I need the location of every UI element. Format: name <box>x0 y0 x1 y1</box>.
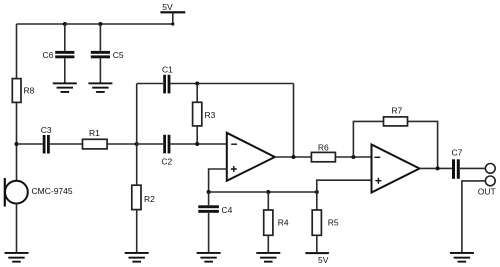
resistor R7 <box>384 117 408 126</box>
wire: R5 leads <box>316 192 318 252</box>
wire: C7 to output jack tip <box>460 167 486 169</box>
node: bias/C4 junction <box>207 190 211 194</box>
capacitor C4 <box>198 205 219 212</box>
ground: under R2 <box>125 252 149 263</box>
svg-text:R5: R5 <box>328 218 339 228</box>
node: C2/R3 junction <box>195 142 199 146</box>
node: bias/R4 junction <box>266 190 270 194</box>
svg-text:C5: C5 <box>113 50 124 60</box>
wire: bias row <box>209 191 317 193</box>
svg-text:R8: R8 <box>24 85 35 95</box>
ground: under C5 <box>88 82 112 93</box>
wire: top supply rail <box>17 23 173 25</box>
node: mic / C3 junction <box>15 142 19 146</box>
node: output/feedback junction <box>292 155 296 159</box>
marker: U1 minus <box>231 143 237 145</box>
wire: U1 output to R6 <box>275 156 312 158</box>
resistor R2 <box>132 185 141 209</box>
svg-text:R1: R1 <box>89 128 100 138</box>
svg-text:R7: R7 <box>391 106 402 116</box>
resistor R6 <box>311 152 335 161</box>
capacitor C5 <box>91 51 110 58</box>
svg-text:R4: R4 <box>278 218 289 228</box>
svg-text:C2: C2 <box>161 157 172 167</box>
svg-text:C1: C1 <box>162 65 173 75</box>
wire: U1 plus input down to bias row <box>209 169 227 192</box>
wire: feedback vertical down to output node <box>293 84 295 158</box>
wire: C1 row left segment <box>137 83 163 85</box>
ground: under C6 <box>53 82 77 93</box>
svg-text:5V: 5V <box>162 2 173 12</box>
svg-text:R2: R2 <box>144 194 155 204</box>
ground: under microphone <box>5 252 29 263</box>
resistor R3 <box>193 102 202 126</box>
ground: output sleeve <box>450 252 474 263</box>
5V supply bottom <box>305 252 329 254</box>
marker: U2 plus <box>375 178 381 184</box>
wire: C6 leads <box>64 24 66 83</box>
svg-text:R3: R3 <box>205 110 216 120</box>
svg-text:C3: C3 <box>41 125 52 135</box>
node: C5 top junction <box>98 22 102 26</box>
wire: R1 to node <box>107 143 137 145</box>
op-amp U2 <box>372 145 420 193</box>
wire: mic to ground <box>16 204 18 253</box>
resistor R8 <box>12 79 21 103</box>
node: C1/R3 junction <box>195 82 199 86</box>
wire: C2 to op-amp U1 inverting input <box>170 143 226 145</box>
wire: R6 to U2 inverting input <box>335 156 371 158</box>
wire: node to C2 <box>137 143 163 145</box>
wire: R7 branch up and across <box>353 121 437 168</box>
terminal: OUT sleeve <box>485 176 495 186</box>
resistor R5 <box>312 210 321 235</box>
node: bias/R5 junction <box>315 190 319 194</box>
terminal: OUT tip <box>485 164 495 174</box>
wire: U2 output to C7 <box>420 167 452 169</box>
microphone CMC-9745 <box>4 178 28 207</box>
5V supply top <box>160 11 185 25</box>
capacitor C7 <box>452 159 460 179</box>
svg-text:C6: C6 <box>43 50 54 60</box>
wire: C4 leads <box>208 192 210 252</box>
wire: U2 plus input to bias row <box>317 180 372 192</box>
wire: sleeve to ground <box>462 181 486 252</box>
svg-text:OUT: OUT <box>478 186 496 196</box>
svg-text:CMC-9745: CMC-9745 <box>32 186 73 196</box>
node: C6 top junction <box>63 22 67 26</box>
node: output/R7 junction <box>436 166 440 170</box>
resistor R4 <box>264 210 273 235</box>
wire: C3 to R1 <box>50 143 83 145</box>
wire: signal row mic to C3 <box>17 143 43 145</box>
wire: R2 to ground <box>136 210 138 253</box>
marker: U2 minus <box>374 156 380 158</box>
capacitor C6 <box>55 51 74 58</box>
capacitor C2 <box>163 135 170 154</box>
capacitor C1 <box>163 75 170 94</box>
node: R1/C2/R2 junction <box>135 142 139 146</box>
ground: under C4 <box>197 252 221 263</box>
svg-text:C4: C4 <box>222 205 233 215</box>
wire: C5 leads <box>99 24 101 83</box>
svg-text:R6: R6 <box>318 142 329 152</box>
wire: vertical branch C1 row to R2 <box>136 84 138 186</box>
wire: R4 leads <box>267 192 269 252</box>
marker: U1 plus <box>231 166 237 172</box>
wire: R3 leads <box>196 84 198 145</box>
resistor R1 <box>83 139 108 149</box>
ground: under R4 <box>256 252 280 263</box>
node: R6/R7 junction <box>351 155 355 159</box>
svg-text:C7: C7 <box>452 148 463 158</box>
wire: C1 to feedback corner <box>170 83 293 85</box>
wire: left vertical from rail to microphone <box>16 24 18 181</box>
svg-text:5V: 5V <box>318 255 329 265</box>
op-amp U1 <box>227 133 275 181</box>
capacitor C3 <box>43 135 50 154</box>
